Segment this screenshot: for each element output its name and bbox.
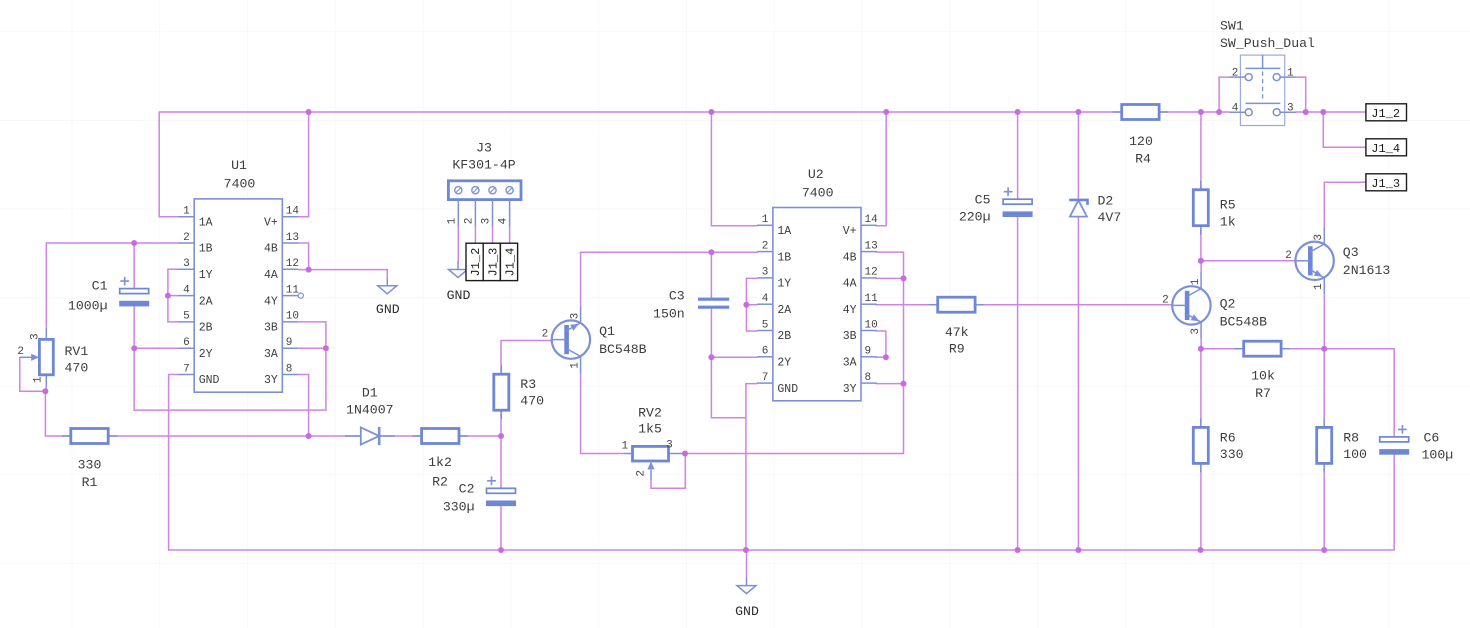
U2 pin 5 (2B) bbox=[757, 330, 773, 332]
wire bus to U1 pin1 bbox=[159, 112, 178, 216]
U1 pin 8 (3Y) bbox=[282, 374, 298, 376]
svg-text:9: 9 bbox=[865, 346, 872, 358]
wire Q1 base bbox=[501, 340, 552, 342]
svg-text:7: 7 bbox=[183, 363, 190, 375]
wire U1 pin4 stub bbox=[168, 295, 179, 297]
transistor Q1 bbox=[552, 306, 590, 372]
svg-text:330: 330 bbox=[78, 458, 102, 473]
svg-text:C3: C3 bbox=[669, 289, 685, 304]
wire R1 to D1 (junction with U1 3Y) bbox=[108, 435, 361, 437]
svg-text:100: 100 bbox=[1343, 447, 1367, 462]
junction bbox=[743, 302, 749, 308]
wire node to R6 top bbox=[1200, 349, 1202, 428]
svg-text:1: 1 bbox=[569, 362, 581, 369]
wire R3 bottom to node bbox=[500, 410, 502, 437]
wire U1 V+ pin14 to bus bbox=[299, 112, 309, 217]
U1 pin 10 (3B) bbox=[282, 321, 298, 323]
wire down to RV1 pin3 bbox=[45, 243, 47, 328]
wire D2 anode to gnd bus bbox=[1077, 217, 1079, 550]
svg-text:2Y: 2Y bbox=[777, 357, 791, 370]
wire RV1 to R1 bbox=[45, 391, 71, 436]
wire SW1 pin2 branch bbox=[1219, 77, 1229, 112]
U2 pin 4 (2A) bbox=[757, 303, 773, 305]
IC U2 7400 body bbox=[773, 208, 861, 401]
IC U1 7400 body bbox=[194, 199, 282, 392]
U2 pin 8 (3Y) bbox=[861, 382, 877, 384]
wire to U2 pin2 1B bbox=[581, 251, 757, 253]
svg-text:2N1613: 2N1613 bbox=[1343, 263, 1391, 278]
svg-text:3A: 3A bbox=[843, 357, 857, 370]
svg-text:R2: R2 bbox=[432, 475, 448, 490]
U1 pin 3 (1Y) bbox=[178, 268, 194, 270]
U2 pin 10 (3B) bbox=[861, 330, 877, 332]
svg-text:SW1: SW1 bbox=[1220, 19, 1244, 34]
U1 pin 1 (1A) bbox=[178, 216, 194, 218]
svg-text:5: 5 bbox=[183, 311, 190, 323]
wire R5 bottom to Q2 collector node bbox=[1200, 226, 1202, 261]
wire R8 bottom to gnd bus bbox=[1323, 463, 1325, 550]
svg-text:6: 6 bbox=[762, 346, 769, 358]
svg-text:R4: R4 bbox=[1135, 152, 1151, 167]
junction bbox=[708, 354, 714, 360]
wire U1 pin10 to pin9 bbox=[299, 322, 326, 348]
U2 pin 6 (2Y) bbox=[757, 356, 773, 358]
svg-text:4Y: 4Y bbox=[843, 304, 857, 317]
wire J3 pin1 to GND symbol bbox=[457, 226, 459, 262]
capacitor C3 bbox=[698, 299, 729, 307]
power symbol GND (J3 pin1) bbox=[449, 262, 468, 278]
switch SW1 SW_Push_Dual bbox=[1229, 55, 1296, 125]
svg-text:C6: C6 bbox=[1424, 431, 1440, 446]
wire Q1 emitter up to U2 1B net bbox=[580, 252, 582, 306]
junction bbox=[708, 249, 714, 255]
wire U2 pin3 stub bbox=[746, 277, 757, 279]
U1 pin 11 (4Y) bbox=[282, 295, 298, 297]
global label J1_3 (vertical) bbox=[483, 243, 500, 280]
wire U2 4B/4A net down to 3Y bbox=[903, 278, 905, 383]
svg-text:3: 3 bbox=[1287, 103, 1294, 115]
capacitor C2 bbox=[486, 476, 516, 506]
wire node to C6 top bbox=[1324, 349, 1394, 437]
wire U2 pin4 stub bbox=[746, 304, 757, 306]
wire U2 pin7 stub bbox=[746, 383, 757, 385]
svg-text:J1_2: J1_2 bbox=[469, 248, 483, 277]
junction bbox=[1075, 109, 1081, 115]
junction bbox=[306, 109, 312, 115]
svg-text:U1: U1 bbox=[231, 158, 247, 173]
svg-text:J1_4: J1_4 bbox=[1371, 142, 1400, 156]
svg-text:2: 2 bbox=[17, 346, 24, 358]
wire node to C2 top bbox=[500, 436, 502, 488]
junction bbox=[901, 381, 907, 387]
U2 pin 13 (4B) bbox=[861, 251, 877, 253]
wire U2 pin11 4Y to R9 bbox=[876, 304, 938, 306]
svg-text:12: 12 bbox=[865, 267, 878, 279]
svg-text:2: 2 bbox=[1162, 294, 1169, 306]
wire C5 bottom to gnd bus bbox=[1017, 216, 1019, 551]
wire bus to C5 top bbox=[1017, 112, 1019, 199]
svg-text:1k: 1k bbox=[1220, 215, 1236, 230]
wire C2 bottom to gnd bus bbox=[500, 505, 502, 550]
junction bbox=[1321, 346, 1327, 352]
svg-text:13: 13 bbox=[865, 240, 878, 252]
svg-text:D2: D2 bbox=[1098, 194, 1114, 209]
svg-text:1: 1 bbox=[762, 214, 769, 226]
svg-text:1: 1 bbox=[1287, 68, 1294, 80]
junction bbox=[1015, 109, 1021, 115]
svg-text:BC548B: BC548B bbox=[599, 342, 647, 357]
potentiometer RV2 bbox=[624, 446, 683, 480]
svg-text:4Y: 4Y bbox=[264, 295, 278, 308]
global label J1_3 bbox=[1366, 174, 1407, 191]
U2 pin 7 (GND) bbox=[757, 382, 773, 384]
svg-text:GND: GND bbox=[777, 383, 798, 396]
wire RV1 pin3 to U1 pin2 (net with C1+) bbox=[46, 242, 178, 244]
wire Q1 collector to RV2 pin1 bbox=[581, 373, 625, 454]
resistor R1 bbox=[62, 429, 117, 444]
svg-text:4A: 4A bbox=[264, 269, 278, 282]
svg-text:Q2: Q2 bbox=[1220, 296, 1236, 311]
junction bbox=[743, 547, 749, 553]
U1 pin 9 (3A) bbox=[282, 347, 298, 349]
capacitor C6 bbox=[1379, 425, 1409, 455]
wire D1 to R2 bbox=[379, 435, 422, 437]
svg-text:120: 120 bbox=[1129, 134, 1153, 149]
junction bbox=[1015, 547, 1021, 553]
wire U1 pins 3-4-5 bracket bbox=[167, 269, 169, 322]
wire node to R8 top bbox=[1323, 349, 1325, 428]
junction bbox=[42, 388, 48, 394]
svg-text:1000µ: 1000µ bbox=[68, 299, 108, 314]
wire C1- under U1 to pins 9/10 bbox=[134, 348, 326, 410]
junction bbox=[1216, 109, 1222, 115]
resistor R4 bbox=[1113, 105, 1168, 120]
svg-text:J1_2: J1_2 bbox=[1371, 107, 1400, 121]
svg-text:1: 1 bbox=[33, 376, 45, 383]
junction bbox=[883, 109, 889, 115]
U1 pin 7 (GND) bbox=[178, 374, 194, 376]
svg-text:2: 2 bbox=[542, 329, 549, 341]
svg-text:1A: 1A bbox=[777, 225, 791, 238]
svg-text:4: 4 bbox=[498, 217, 510, 224]
junction bbox=[1198, 346, 1204, 352]
junction bbox=[708, 109, 714, 115]
wire C3 net down and right bbox=[711, 357, 746, 418]
wire R7 right to node bbox=[1281, 348, 1324, 350]
wire SW1 pin1 branch bbox=[1296, 77, 1306, 112]
capacitor C1 bbox=[119, 277, 149, 307]
svg-text:3: 3 bbox=[29, 333, 41, 340]
svg-text:3: 3 bbox=[1313, 234, 1325, 241]
junction bbox=[682, 451, 688, 457]
global label J1_4 (vertical) bbox=[500, 243, 517, 280]
svg-text:12: 12 bbox=[286, 258, 299, 270]
svg-text:1: 1 bbox=[183, 206, 190, 218]
wire Q2 collector bbox=[1200, 261, 1202, 273]
svg-text:470: 470 bbox=[520, 394, 544, 409]
wire bus to U2 pin1 1A bbox=[711, 112, 757, 226]
svg-text:J3: J3 bbox=[476, 141, 492, 156]
svg-text:GND: GND bbox=[376, 302, 400, 317]
junction bbox=[131, 240, 137, 246]
svg-text:3: 3 bbox=[183, 258, 190, 270]
svg-text:C1: C1 bbox=[92, 279, 108, 294]
wire U1 pin13 down bbox=[299, 243, 309, 270]
U1 pin 14 (V+) bbox=[282, 216, 298, 218]
svg-text:11: 11 bbox=[865, 293, 879, 305]
wire to label J1_4 bbox=[1323, 112, 1366, 147]
wire R2 to R3/C2 node bbox=[459, 435, 501, 437]
svg-text:47k: 47k bbox=[945, 325, 969, 340]
svg-text:4: 4 bbox=[1232, 103, 1239, 115]
svg-text:RV2: RV2 bbox=[638, 406, 662, 421]
svg-text:SW_Push_Dual: SW_Push_Dual bbox=[1220, 36, 1315, 51]
svg-text:1k2: 1k2 bbox=[428, 455, 452, 470]
U2 pin 9 (3A) bbox=[861, 356, 877, 358]
svg-text:2: 2 bbox=[762, 240, 769, 252]
svg-text:3Y: 3Y bbox=[843, 383, 857, 396]
svg-text:C2: C2 bbox=[459, 482, 475, 497]
junction bbox=[1198, 109, 1204, 115]
wire bus junction to GND symbol bbox=[746, 550, 748, 578]
wire U1 pin5 stub bbox=[168, 321, 179, 323]
wire U1 pin8 3Y down to R1 net bbox=[299, 375, 309, 437]
svg-text:150n: 150n bbox=[653, 307, 685, 322]
svg-text:C5: C5 bbox=[975, 193, 991, 208]
svg-text:1: 1 bbox=[1190, 278, 1202, 285]
junction bbox=[131, 345, 137, 351]
svg-text:1A: 1A bbox=[199, 216, 213, 229]
svg-text:1: 1 bbox=[446, 217, 458, 224]
wire U2 pin7 GND drop bbox=[745, 384, 747, 550]
svg-text:7400: 7400 bbox=[802, 186, 834, 201]
U1 pin 5 (2B) bbox=[178, 321, 194, 323]
svg-text:4B: 4B bbox=[843, 251, 857, 264]
wire R9 to Q2 base bbox=[975, 304, 1173, 306]
svg-text:4A: 4A bbox=[843, 278, 857, 291]
svg-text:R6: R6 bbox=[1220, 430, 1236, 445]
U1 pin 13 (4B) bbox=[282, 242, 298, 244]
svg-text:2: 2 bbox=[1285, 250, 1292, 262]
wire U1 pin9 stub bbox=[299, 347, 326, 349]
wire U2 pin13 down bbox=[876, 252, 903, 278]
wire C1 top bbox=[133, 243, 135, 289]
svg-text:1Y: 1Y bbox=[777, 278, 791, 291]
svg-text:R8: R8 bbox=[1343, 430, 1359, 445]
svg-text:13: 13 bbox=[286, 232, 299, 244]
svg-text:3B: 3B bbox=[264, 322, 278, 335]
svg-text:R7: R7 bbox=[1255, 386, 1271, 401]
svg-text:1B: 1B bbox=[199, 243, 213, 256]
svg-text:4: 4 bbox=[762, 293, 769, 305]
svg-text:3: 3 bbox=[762, 267, 769, 279]
svg-text:Q3: Q3 bbox=[1343, 245, 1359, 260]
wire C6 bottom to gnd bus bbox=[1393, 453, 1395, 550]
wire GND bus bbox=[169, 549, 1395, 551]
junction bbox=[1198, 547, 1204, 553]
svg-text:3: 3 bbox=[481, 218, 493, 225]
junction bbox=[306, 433, 312, 439]
connector J3 KF301-4P bbox=[448, 181, 521, 226]
power symbol GND (bottom bus) bbox=[737, 578, 756, 594]
U2 pin 11 (4Y) bbox=[861, 303, 877, 305]
junction bbox=[1320, 109, 1326, 115]
svg-text:4B: 4B bbox=[264, 243, 278, 256]
svg-text:1: 1 bbox=[621, 441, 628, 453]
wire RV1 wiper loop bbox=[20, 357, 46, 391]
svg-text:2: 2 bbox=[1232, 68, 1239, 80]
resistor R9 bbox=[929, 297, 984, 312]
svg-text:330µ: 330µ bbox=[443, 500, 475, 515]
U1 pin 4 (2A) bbox=[178, 295, 194, 297]
svg-text:J1_4: J1_4 bbox=[504, 248, 518, 277]
svg-text:D1: D1 bbox=[362, 386, 378, 401]
svg-text:R9: R9 bbox=[949, 342, 965, 357]
wire J3 pin4 to label J1_4 bbox=[509, 226, 511, 243]
wire C1 bottom bbox=[133, 306, 135, 349]
U2 pin 12 (4A) bbox=[861, 277, 877, 279]
svg-text:3: 3 bbox=[1190, 328, 1202, 335]
junction bbox=[498, 547, 504, 553]
U1 pin 2 (1B) bbox=[178, 242, 194, 244]
wire U2 pin10 to pin9 bbox=[876, 331, 886, 357]
svg-text:8: 8 bbox=[865, 372, 872, 384]
junction bbox=[165, 293, 171, 299]
svg-text:470: 470 bbox=[65, 361, 89, 376]
svg-text:2: 2 bbox=[464, 218, 476, 225]
resistor R2 bbox=[413, 429, 468, 444]
wire J3 pin3 to label J1_3 bbox=[492, 226, 494, 243]
svg-text:100µ: 100µ bbox=[1422, 448, 1454, 463]
svg-text:6: 6 bbox=[183, 337, 190, 349]
wire U1 pin3 stub bbox=[168, 268, 179, 270]
potentiometer RV1 bbox=[20, 328, 54, 387]
svg-text:V+: V+ bbox=[264, 216, 278, 229]
wire SW1 pin3 to label J1_2 bbox=[1296, 111, 1366, 113]
svg-text:J1_3: J1_3 bbox=[486, 248, 500, 277]
transistor Q2 bbox=[1172, 272, 1210, 338]
svg-text:4: 4 bbox=[183, 284, 190, 296]
wire bus to D2 cathode bbox=[1077, 112, 1079, 199]
svg-text:8: 8 bbox=[286, 363, 293, 375]
svg-text:GND: GND bbox=[447, 288, 471, 303]
wire Q2 emitter down bbox=[1200, 339, 1202, 349]
svg-text:R3: R3 bbox=[520, 377, 536, 392]
wire R6 bottom to gnd bus bbox=[1200, 463, 1202, 550]
svg-text:3: 3 bbox=[569, 313, 581, 320]
svg-text:1k5: 1k5 bbox=[638, 422, 662, 437]
svg-text:2A: 2A bbox=[777, 304, 791, 317]
svg-text:1: 1 bbox=[1313, 283, 1325, 290]
svg-text:GND: GND bbox=[199, 374, 220, 387]
svg-text:14: 14 bbox=[286, 206, 300, 218]
svg-text:7400: 7400 bbox=[224, 176, 256, 191]
wire RV1 pin1 to junction bbox=[45, 387, 47, 392]
svg-text:2B: 2B bbox=[777, 330, 791, 343]
wire U2 pins 3-4-5 bracket bbox=[745, 278, 747, 331]
junction bbox=[1321, 547, 1327, 553]
zener diode D2 bbox=[1069, 200, 1087, 217]
svg-text:1B: 1B bbox=[777, 251, 791, 264]
power symbol GND (U1 pin12 net) bbox=[378, 278, 397, 294]
junction bbox=[901, 275, 907, 281]
resistor R3 bbox=[494, 365, 509, 419]
junction bbox=[498, 433, 504, 439]
junction bbox=[1198, 258, 1204, 264]
wire R4 to SW1 pin4 bbox=[1159, 111, 1229, 113]
svg-text:1N4007: 1N4007 bbox=[346, 403, 393, 418]
wire label J1_3 to Q3 collector bbox=[1324, 182, 1366, 227]
wire C3 top bbox=[710, 252, 712, 297]
U2 pin 3 (1Y) bbox=[757, 277, 773, 279]
svg-text:2A: 2A bbox=[199, 295, 213, 308]
svg-text:4V7: 4V7 bbox=[1098, 210, 1122, 225]
wire to U1 pin6 bbox=[134, 347, 178, 349]
wire node to R7 left bbox=[1201, 348, 1244, 350]
U2 pin 14 (V+) bbox=[861, 224, 877, 226]
svg-text:R5: R5 bbox=[1220, 198, 1236, 213]
U2 pin 1 (1A) bbox=[757, 224, 773, 226]
junction bbox=[306, 267, 312, 273]
svg-text:U2: U2 bbox=[808, 167, 824, 182]
diode D1 bbox=[345, 427, 395, 445]
global label J1_2 (vertical) bbox=[466, 243, 483, 280]
svg-text:330: 330 bbox=[1220, 447, 1244, 462]
resistor R7 bbox=[1235, 341, 1290, 356]
svg-text:1Y: 1Y bbox=[199, 269, 213, 282]
wire C3 bottom to U2 pin6 net bbox=[710, 309, 712, 357]
wire U2 pin8 stub bbox=[876, 383, 903, 385]
U1 pin 6 (2Y) bbox=[178, 347, 194, 349]
wire U2 pin9 stub bbox=[876, 356, 886, 358]
wire RV2 wiper loop bbox=[651, 454, 685, 489]
svg-text:9: 9 bbox=[286, 337, 293, 349]
svg-text:BC548B: BC548B bbox=[1220, 314, 1268, 329]
wire J3 pin2 to label J1_2 bbox=[474, 226, 476, 243]
svg-text:R1: R1 bbox=[82, 475, 98, 490]
wire Q3 emitter down bbox=[1323, 294, 1325, 349]
wire U1 pin12 to GND symbol bbox=[309, 270, 388, 278]
wire V+ bus left segment bbox=[159, 111, 1121, 113]
wire U1 pin7 GND drop bbox=[169, 375, 179, 551]
svg-text:14: 14 bbox=[865, 214, 879, 226]
svg-text:V+: V+ bbox=[843, 225, 857, 238]
transistor Q3 bbox=[1295, 228, 1333, 294]
wire U2 3Y to RV2 node bbox=[685, 384, 904, 454]
capacitor C5 bbox=[1003, 187, 1033, 217]
svg-text:7: 7 bbox=[762, 372, 769, 384]
U1 pin 12 (4A) bbox=[282, 268, 298, 270]
junction bbox=[323, 345, 329, 351]
svg-text:10: 10 bbox=[865, 319, 878, 331]
svg-text:3: 3 bbox=[666, 440, 673, 452]
svg-text:Q1: Q1 bbox=[599, 324, 615, 339]
wire node to Q3 base bbox=[1201, 260, 1296, 262]
wire R3 top bbox=[500, 341, 502, 376]
svg-text:2B: 2B bbox=[199, 322, 213, 335]
svg-text:J1_3: J1_3 bbox=[1371, 177, 1400, 191]
wire bus to R5 top bbox=[1200, 112, 1202, 189]
resistor R5 bbox=[1193, 181, 1208, 235]
U1 pin 11 unconnected end bbox=[298, 293, 303, 298]
svg-text:10: 10 bbox=[286, 311, 299, 323]
wire U2 pin12 stub bbox=[876, 277, 903, 279]
svg-text:2: 2 bbox=[636, 470, 648, 477]
svg-text:220µ: 220µ bbox=[959, 210, 991, 225]
svg-text:5: 5 bbox=[762, 319, 769, 331]
wire to U2 pin6 2Y bbox=[711, 356, 757, 358]
wire U2 V+ pin14 to bus bbox=[876, 112, 886, 226]
